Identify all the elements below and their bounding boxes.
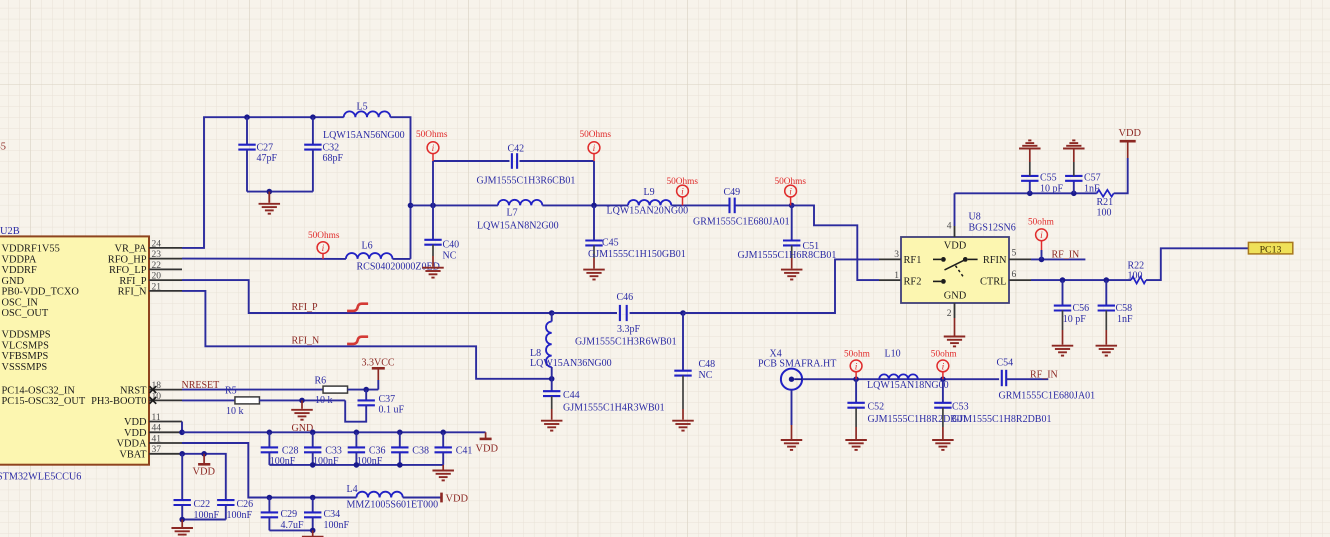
label C26 100nF: [227, 499, 254, 521]
svg-text:GRM1555C1E680JA01: GRM1555C1E680JA01: [693, 217, 790, 228]
svg-text:U2B: U2B: [0, 226, 20, 237]
svg-text:10 pF: 10 pF: [1063, 314, 1087, 325]
ground under C51: [781, 270, 803, 280]
power port VDD (top right): [1119, 128, 1142, 141]
pin 5 stub (RFIN): [1009, 258, 1031, 260]
label C29 4.7uF: [281, 509, 305, 531]
svg-text:GJM1555C1H150GB01: GJM1555C1H150GB01: [588, 249, 686, 260]
ground GND (BOOT0): [291, 410, 313, 420]
svg-text:NC: NC: [699, 370, 713, 381]
wire L8 top stem: [551, 313, 553, 322]
power port VDD (rail end): [476, 439, 499, 455]
capacitor C40: [424, 240, 441, 245]
svg-text:RF2: RF2: [904, 276, 922, 287]
net label RF_IN (RFIN): [1052, 249, 1080, 260]
net label NRESET: [182, 380, 220, 391]
wire C33 top stem: [312, 432, 314, 447]
svg-text:0.1 uF: 0.1 uF: [379, 405, 405, 416]
svg-text:C29: C29: [281, 509, 298, 520]
svg-text:STM32WLE5CCU6: STM32WLE5CCU6: [0, 472, 81, 483]
inductor L5: [344, 111, 391, 117]
label LQW15AN18NG00: [867, 380, 949, 391]
svg-text:50Ohms: 50Ohms: [416, 130, 448, 140]
label R5: [225, 386, 237, 397]
junction C29 tap: [267, 495, 273, 501]
pin RF2 stub: [879, 279, 901, 281]
inductor L8: [546, 322, 552, 368]
label C28: [270, 445, 299, 467]
wire RFI_P riser to RF1: [683, 259, 879, 313]
no-ERC cross on PH3-BOOT0 pin: [149, 397, 156, 404]
svg-text:C26: C26: [237, 499, 254, 510]
svg-text:i: i: [789, 187, 792, 197]
wire X4 ground stem: [791, 425, 793, 439]
wire U8 pin2 ground stem: [954, 318, 956, 336]
label C36: [357, 445, 386, 467]
label R21 100: [1097, 197, 1114, 219]
part number STM32WLE5CCU6: [0, 472, 81, 483]
label C22 100nF: [194, 499, 220, 521]
IC U8 body (BGS12SN6): [901, 237, 1009, 303]
svg-text:NC: NC: [443, 251, 457, 262]
label C48 NC: [699, 359, 716, 381]
junction C58 tap: [1104, 277, 1110, 283]
junction matching node A: [408, 203, 414, 209]
svg-text:C28: C28: [282, 445, 299, 456]
svg-text:i: i: [432, 144, 435, 154]
part number BGS12SN6: [969, 223, 1016, 234]
wire node A to L7: [411, 204, 498, 206]
wire RFIN net: [1031, 258, 1085, 260]
pin 6 stub (CTRL): [1009, 279, 1031, 281]
svg-text:VLCSMPS: VLCSMPS: [2, 340, 50, 351]
wire R21 to VDD riser: [1114, 158, 1128, 193]
label C40 NC: [443, 240, 460, 262]
junction L8 bottom / C44: [549, 376, 555, 382]
ground under C53: [932, 440, 954, 450]
label C56 10 pF: [1063, 303, 1089, 325]
capacitor C44: [543, 391, 560, 396]
wire C22 bottom stem: [181, 505, 183, 520]
svg-text:4: 4: [947, 222, 952, 232]
pin PH3-BOOT0 stub: [149, 399, 182, 401]
label MMZ1005S601ET000: [347, 499, 439, 510]
wire C57 ground stem: [1073, 150, 1075, 163]
wire C57 top stem: [1073, 162, 1075, 176]
svg-text:C48: C48: [699, 359, 716, 370]
designator U2B: [0, 226, 20, 237]
directive text 50ohm (C53): [931, 349, 958, 359]
wire C49 to C51 node: [735, 204, 792, 206]
label C54: [997, 358, 1014, 369]
wire C27 top stem: [246, 117, 248, 145]
svg-text:RF_IN: RF_IN: [1052, 249, 1080, 260]
svg-text:LQW15AN8N2G00: LQW15AN8N2G00: [477, 220, 559, 231]
capacitor C32: [304, 145, 321, 150]
capacitor C26: [217, 500, 234, 505]
svg-text:2: 2: [947, 309, 952, 319]
svg-text:C56: C56: [1073, 303, 1090, 314]
svg-text:50ohm: 50ohm: [931, 349, 958, 359]
svg-text:RFO_HP: RFO_HP: [108, 254, 147, 265]
svg-text:PC15-OSC32_OUT: PC15-OSC32_OUT: [2, 396, 86, 407]
net label RF_IN (antenna): [1030, 370, 1058, 381]
wire C56 bottom stem: [1062, 311, 1064, 331]
capacitor C45: [585, 241, 602, 246]
svg-text:RFI_N: RFI_N: [292, 336, 320, 347]
label L10: [885, 348, 901, 359]
no-ERC cross on NRST pin: [149, 386, 156, 393]
svg-text:C36: C36: [369, 445, 386, 456]
label L9: [644, 187, 655, 198]
ground under C44: [541, 421, 563, 431]
svg-text:R6: R6: [315, 376, 327, 387]
pin VR_PA stub: [149, 247, 182, 249]
ground under C58: [1096, 346, 1118, 356]
wire C40 bottom stem: [432, 245, 434, 256]
capacitor C28: [261, 447, 278, 452]
wire 3.3VCC stem: [377, 368, 379, 380]
junction C52 tap: [853, 376, 859, 382]
capacitor C49: [730, 198, 735, 214]
inductor L10: [879, 374, 918, 379]
wire C28 top stem: [268, 432, 270, 447]
capacitor C55: [1021, 176, 1038, 181]
svg-text:NRST: NRST: [120, 385, 147, 396]
svg-text:LQW15AN56NG00: LQW15AN56NG00: [323, 130, 405, 141]
wire L7 to L9: [542, 204, 628, 206]
directive circle 50Ohms (node x791): [785, 185, 797, 197]
wire VDD rail: [182, 431, 486, 433]
directive circle 50ohm (C52): [850, 360, 862, 372]
label GJM1555C1H3R6CB01 (C42): [477, 176, 576, 187]
wire C45 bottom stem: [593, 245, 595, 258]
svg-text:VSSSMPS: VSSSMPS: [2, 362, 48, 373]
junction cap tap x269: [267, 430, 273, 436]
wire C44 bottom stem: [551, 396, 553, 409]
wire C34 ground stem: [312, 530, 314, 536]
net label RFI_N: [292, 336, 320, 347]
pin VDDA stub: [149, 442, 182, 444]
directive text 50Ohms (RFO_HP): [308, 231, 340, 241]
junction cap tap x399: [397, 430, 403, 436]
differential pair directive (RFI_N): [347, 337, 368, 344]
pin VBAT stub: [149, 453, 182, 455]
wire C48 top stem: [682, 313, 684, 371]
wire C29 top stem: [268, 498, 270, 513]
capacitor C56: [1054, 306, 1071, 311]
label C38: [412, 445, 429, 456]
svg-text:C27: C27: [257, 143, 274, 154]
svg-text:C32: C32: [323, 143, 340, 154]
label C53: [952, 402, 969, 413]
U8 pin names: [904, 241, 1007, 302]
wire 3.3VCC to NRST: [377, 380, 379, 390]
inductor L6: [346, 253, 393, 259]
junction L8 tap: [549, 310, 555, 316]
pin NRST stub: [149, 389, 182, 391]
svg-text:LQW15AN36NG00: LQW15AN36NG00: [530, 358, 612, 369]
svg-text:OSC_OUT: OSC_OUT: [2, 308, 49, 319]
wire decoupling rail: [955, 192, 1097, 194]
svg-text:C41: C41: [456, 445, 473, 456]
svg-text:C57: C57: [1084, 173, 1101, 184]
svg-text:C42: C42: [508, 143, 525, 154]
svg-text:100nF: 100nF: [324, 520, 350, 531]
wire C32 bottom stem: [312, 150, 314, 192]
ground under X4: [781, 440, 803, 450]
capacitor C38: [391, 447, 408, 452]
label GRM1555C1E680JA01 (C54): [999, 391, 1096, 402]
label GJM1555C1H6R8CB01 (C51): [738, 250, 837, 261]
pin RFO_LP stub: [149, 268, 182, 270]
label C46: [617, 292, 634, 303]
junction C55: [1027, 191, 1033, 197]
wire C46 to C48 node: [630, 312, 683, 314]
directive circle 50Ohms (RFO_HP): [317, 242, 329, 254]
ground under C34 (clipped): [302, 536, 324, 537]
label C51: [803, 241, 820, 252]
ground under C27/C32: [259, 204, 281, 214]
designator X4: [770, 348, 782, 359]
wire C42 to riser x594: [520, 160, 595, 162]
label C57 1nF: [1084, 173, 1101, 195]
wire C38 bottom stem: [399, 452, 401, 465]
power port VDD (after L4): [442, 493, 469, 505]
wire 50ohm stub C53: [942, 372, 944, 379]
svg-text:55: 55: [0, 141, 6, 152]
wire GND stem: [301, 400, 303, 408]
label GJM1555C1H8R2DB01 (C52): [868, 414, 967, 425]
clipped net label fragment 55: [0, 141, 6, 152]
ground above C57 (inverted): [1063, 140, 1085, 148]
capacitor C33: [304, 447, 321, 452]
junction C22 ground tap: [179, 517, 185, 523]
label GRM1555C1E680JA01 (C49): [693, 217, 790, 228]
svg-text:RFIN: RFIN: [983, 255, 1007, 266]
power port 3.3VCC bar: [372, 367, 385, 370]
svg-text:GND: GND: [2, 276, 25, 287]
svg-text:C45: C45: [602, 237, 619, 248]
svg-text:3.3pF: 3.3pF: [617, 324, 641, 335]
wire 50Ohms stub x594: [593, 154, 595, 161]
label C49: [724, 187, 741, 198]
svg-text:U8: U8: [969, 212, 981, 223]
svg-text:PH3-BOOT0: PH3-BOOT0: [91, 396, 146, 407]
junction VDD port tap: [201, 451, 207, 457]
junction C34 ground tap: [310, 528, 316, 534]
junction C34 tap: [310, 495, 316, 501]
differential pair directive (RFI_P): [347, 304, 368, 311]
wire C58 ground stem: [1105, 330, 1107, 345]
capacitor C41: [435, 447, 452, 452]
capacitor C37: [358, 400, 375, 405]
wire C36 top stem: [355, 432, 357, 447]
capacitor C57: [1065, 176, 1082, 181]
junction C57: [1071, 191, 1077, 197]
svg-text:R5: R5: [225, 386, 237, 397]
wire C33 bottom stem: [312, 452, 314, 465]
svg-text:C33: C33: [325, 445, 342, 456]
wire C41 top stem: [442, 432, 444, 447]
capacitor C46: [620, 305, 627, 321]
resistor R22 (zigzag): [1131, 277, 1146, 284]
label C41: [456, 445, 473, 456]
wire 50ohm stub RFIN lower: [1041, 250, 1043, 259]
wire to C42: [433, 160, 510, 162]
svg-text:RFI_P: RFI_P: [119, 276, 146, 287]
svg-text:i: i: [855, 362, 858, 372]
svg-text:VR_PA: VR_PA: [115, 244, 147, 255]
wire VBAT branch: [182, 454, 226, 500]
svg-text:C44: C44: [563, 390, 580, 401]
svg-text:RFI_P: RFI_P: [292, 302, 319, 313]
power port text GND: [292, 423, 314, 434]
label LQW15AN36NG00: [530, 358, 612, 369]
wire C51 node to RF2: [792, 205, 879, 280]
label C42: [508, 143, 525, 154]
wire NRST pin to R6: [182, 389, 323, 391]
ground above C55 (inverted): [1019, 140, 1041, 148]
wire C53 bottom stem: [942, 408, 944, 427]
directive text 50Ohms (node x682): [667, 177, 699, 187]
svg-text:R21: R21: [1097, 197, 1114, 208]
wire C27 bottom stem: [246, 150, 248, 192]
pin VDD stub: [149, 431, 182, 433]
wire C34 top stem: [312, 498, 314, 513]
svg-text:10 k: 10 k: [226, 406, 244, 417]
svg-text:L5: L5: [357, 102, 368, 113]
svg-text:100: 100: [1097, 207, 1112, 218]
wire RFI_P from pin20: [182, 280, 552, 313]
wire C22 ground stem: [181, 520, 183, 528]
svg-text:PCB SMAFRA.HT: PCB SMAFRA.HT: [758, 358, 836, 369]
inductor L4 (ferrite bead): [356, 492, 402, 498]
resistor R5: [235, 397, 260, 404]
designator U8: [969, 212, 981, 223]
power port text 3.3VCC: [362, 358, 395, 369]
wire C52 top stem: [855, 379, 857, 403]
label LQW15AN20NG00: [607, 205, 689, 216]
label RCS04020000Z0ED: [357, 261, 440, 272]
wire C48 bottom stem: [682, 376, 684, 409]
junction C53 tap: [940, 376, 946, 382]
label R22 100: [1128, 260, 1145, 281]
wire C29-C34 bottom rail: [269, 529, 312, 531]
label C44: [563, 390, 580, 401]
svg-text:68pF: 68pF: [323, 153, 344, 164]
capacitor C29: [261, 512, 278, 517]
directive circle 50Ohms (node x594): [588, 142, 600, 154]
label 10 k (R6): [315, 395, 333, 406]
svg-text:i: i: [593, 144, 596, 154]
svg-text:6: 6: [1012, 270, 1017, 280]
svg-text:L9: L9: [644, 187, 655, 198]
svg-text:L6: L6: [362, 240, 373, 251]
svg-text:CTRL: CTRL: [980, 276, 1007, 287]
ground under C56: [1052, 346, 1074, 356]
port PC13: [1248, 242, 1292, 255]
svg-text:i: i: [322, 244, 325, 254]
svg-text:5: 5: [1012, 249, 1017, 259]
svg-text:C58: C58: [1116, 303, 1133, 314]
power port VDD (VBAT rail): [193, 464, 216, 477]
svg-text:50Ohms: 50Ohms: [580, 130, 612, 140]
wire C44 top stem: [551, 379, 553, 391]
junction C32 top: [310, 114, 316, 120]
junction ground tap: [267, 189, 273, 195]
wire caps bottom rail: [269, 464, 443, 466]
label C37 0.1 uF: [379, 394, 405, 416]
wire C27-C32 bottom rail: [247, 191, 313, 193]
wire C52 ground stem: [855, 427, 857, 439]
directive circle 50Ohms (node x433): [427, 142, 439, 154]
wire antenna line: [802, 378, 999, 380]
wire C53 ground stem: [942, 427, 944, 439]
svg-text:47pF: 47pF: [257, 153, 278, 164]
net label RFI_P: [292, 302, 319, 313]
capacitor C42: [512, 153, 517, 169]
ground under C45: [583, 270, 605, 280]
svg-text:GRM1555C1E680JA01: GRM1555C1E680JA01: [999, 391, 1096, 402]
label L6: [362, 240, 373, 251]
label C58 1nF: [1116, 303, 1134, 325]
svg-text:RF_IN: RF_IN: [1030, 370, 1058, 381]
wire C22 top stem: [181, 454, 183, 500]
svg-text:VDD: VDD: [124, 417, 147, 428]
capacitor C51: [783, 241, 800, 246]
svg-text:PC13: PC13: [1260, 244, 1282, 255]
svg-text:10 pF: 10 pF: [1040, 184, 1064, 195]
pin 4 stub (U8 VDD): [954, 226, 956, 237]
label LQW15AN8N2G00: [477, 220, 559, 231]
wire BOOT0 pin to R5: [182, 399, 235, 401]
wire C26 bottom stem: [225, 505, 227, 520]
svg-text:1nF: 1nF: [1117, 314, 1133, 325]
pin RF1 stub: [879, 258, 901, 260]
wire 50Ohms stub x682: [682, 197, 684, 206]
junction VDD pin11: [179, 430, 185, 436]
svg-text:LQW15AN20NG00: LQW15AN20NG00: [607, 205, 689, 216]
ground U8 pin2: [944, 337, 966, 347]
ground under C52: [845, 440, 867, 450]
label L5: [357, 102, 368, 113]
wire C58 bottom stem: [1105, 311, 1107, 331]
wire C51 ground stem: [791, 258, 793, 269]
wire branch riser x433: [432, 161, 434, 205]
label PCB SMAFRA.HT: [758, 358, 836, 369]
wire VR_PA pin24 up to filter rail: [182, 117, 344, 248]
directive text 50Ohms (node x433): [416, 130, 448, 140]
svg-text:VDDRF: VDDRF: [2, 265, 37, 276]
connector X4 (PCB SMAFRA.HT): [781, 369, 802, 390]
svg-text:GJM1555C1H3R6CB01: GJM1555C1H3R6CB01: [477, 176, 576, 187]
wire C48 ground stem: [682, 409, 684, 420]
wire C57 bottom stem: [1073, 181, 1075, 194]
wire R22 to port PC13: [1146, 248, 1248, 280]
label LQW15AN56NG00: [323, 130, 405, 141]
svg-text:VDD: VDD: [476, 443, 499, 454]
label C27 47pF: [257, 143, 278, 165]
junction C45 node: [591, 203, 597, 209]
svg-text:50ohm: 50ohm: [1028, 218, 1055, 228]
wire C40 top stem: [432, 205, 434, 239]
svg-text:VDD: VDD: [1119, 128, 1142, 139]
wire RFO_HP pin23 to L6: [182, 258, 346, 260]
junction C37 top: [363, 387, 369, 393]
wire L9 to C49: [671, 204, 729, 206]
wire bottom rail ground stem: [442, 465, 444, 470]
